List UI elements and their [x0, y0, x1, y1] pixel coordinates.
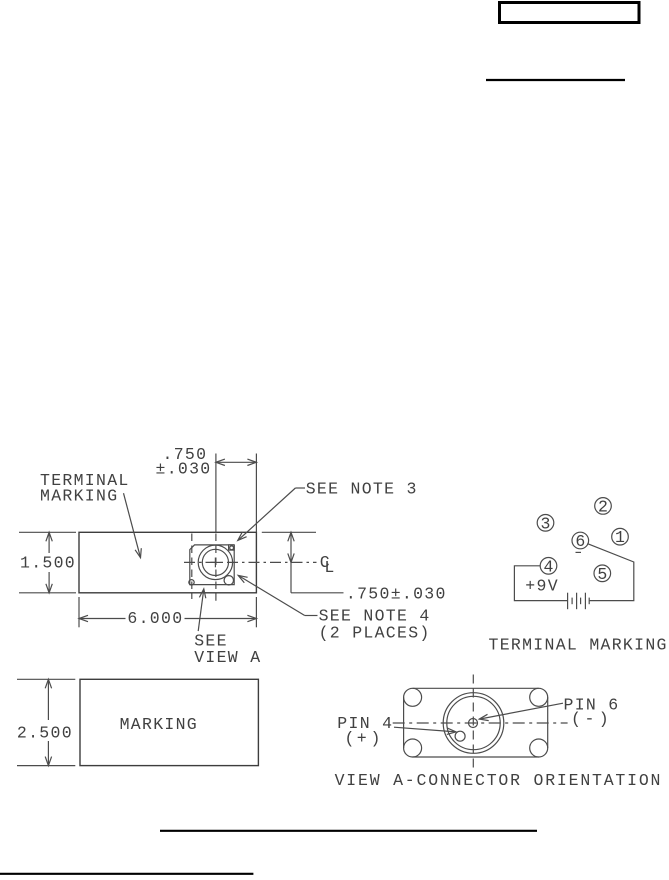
bottom horizontal rule (center) — [160, 830, 537, 832]
caption TERMINAL MARKING — [489, 636, 668, 655]
svg-text:TERMINAL MARKING: TERMINAL MARKING — [489, 636, 668, 655]
terminal 4 — [540, 557, 557, 576]
view A corner snap top-right — [530, 688, 548, 706]
label SEE NOTE 4 (2 PLACES) — [319, 607, 431, 643]
extension line body right edge (.750 top) — [255, 454, 257, 533]
svg-text:VIEW A: VIEW A — [194, 648, 261, 667]
view A vertical centerline — [472, 675, 474, 772]
extension line connector center (.750 top) — [215, 454, 217, 533]
svg-text:6: 6 — [575, 532, 585, 551]
dimension tolerance text ±.030 — [156, 459, 212, 478]
view A connector face outline — [404, 688, 548, 757]
terminal 2 — [595, 497, 612, 516]
connector body (square with chamfer) — [190, 545, 234, 585]
leader arrow to connector (see note 3) — [238, 488, 305, 540]
extension line top (2.500) — [17, 678, 75, 680]
minus mark under terminal 6 — [576, 551, 582, 553]
dimension line 1.500 with arrows — [46, 532, 52, 593]
wire terminal 6 to battery negative — [587, 544, 634, 601]
dimension line 6.000 with arrows — [79, 615, 256, 621]
dimension .750±.030 right: extension line — [262, 531, 316, 533]
view A pin 6 (center) — [469, 719, 478, 728]
dimension text 6.000 — [127, 609, 183, 628]
leader arrow to pin 6 — [479, 703, 563, 720]
svg-text:3: 3 — [541, 514, 551, 533]
view A corner snap bottom-right — [530, 739, 548, 757]
terminal 1 — [612, 528, 629, 547]
leader arrow to connector (see view a) — [198, 589, 206, 631]
svg-text:L: L — [324, 558, 334, 577]
svg-text:MARKING: MARKING — [40, 487, 118, 506]
horizontal rule under title — [486, 79, 625, 81]
svg-text:(-): (-) — [571, 710, 609, 729]
marking face outline — [80, 679, 258, 765]
svg-text:1.500: 1.500 — [20, 553, 76, 572]
svg-text:SEE NOTE 3: SEE NOTE 3 — [306, 480, 418, 499]
+9V label — [525, 577, 559, 596]
label SEE NOTE 3 — [306, 480, 418, 499]
svg-text:(+): (+) — [345, 729, 381, 748]
vertical dashed centerline x=191.8 — [191, 534, 193, 600]
dimension text 2.500 — [17, 724, 73, 743]
view A outer ring — [443, 693, 504, 754]
extension line top-left (1.500) — [19, 531, 76, 533]
view A horizontal centerline — [393, 722, 568, 724]
connector center cross — [210, 558, 220, 568]
svg-text:1: 1 — [615, 528, 625, 547]
label TERMINAL MARKING — [40, 471, 130, 506]
svg-text:2.500: 2.500 — [17, 724, 73, 743]
extension line bottom-left (1.500) — [19, 592, 76, 594]
leader arrow to pin 4 — [394, 727, 456, 734]
label SEE VIEW A — [194, 632, 261, 668]
svg-text:±.030: ±.030 — [156, 459, 212, 478]
wire terminal 4 to battery positive — [514, 566, 567, 601]
terminal 5 — [594, 565, 611, 584]
view A corner snap bottom-left — [404, 739, 422, 757]
svg-text:.750±.030: .750±.030 — [346, 585, 447, 604]
label PIN 6 ( - ) — [564, 696, 620, 729]
svg-text:2: 2 — [598, 497, 608, 516]
caption VIEW A-CONNECTOR ORIENTATION — [335, 771, 663, 790]
svg-text:VIEW A-CONNECTOR ORIENTATION: VIEW A-CONNECTOR ORIENTATION — [335, 771, 663, 790]
terminal 6 — [572, 532, 589, 551]
view A corner snap top-left — [404, 688, 422, 706]
horizontal centerline through connector — [184, 561, 317, 563]
connector snap bottom-left — [189, 580, 194, 585]
connector top-right latch detail — [229, 545, 235, 550]
dimension line 2.500 with arrows — [45, 679, 51, 765]
extension line below-right (6.000) — [255, 597, 257, 627]
label PIN 4 ( + ) — [337, 714, 393, 748]
extension line bottom (2.500) — [17, 765, 75, 767]
leader arrow from TERMINAL MARKING label — [124, 493, 142, 558]
MARKING text — [120, 715, 198, 734]
connector outer ring — [198, 545, 232, 579]
svg-text:4: 4 — [544, 557, 554, 576]
title box (empty) — [500, 3, 640, 23]
view A pin 4 — [455, 731, 465, 741]
dimension text .750 — [163, 445, 208, 464]
terminal 3 — [537, 514, 554, 533]
svg-text:6.000: 6.000 — [127, 609, 183, 628]
connector inner ring — [202, 549, 228, 575]
dimension text 1.500 — [20, 553, 76, 572]
dimension text .750±.030 — [346, 585, 447, 604]
footnote rule bottom-left — [0, 873, 253, 875]
svg-text:5: 5 — [597, 565, 607, 584]
centerline symbol CL — [320, 553, 335, 577]
connector snap bottom-right — [224, 576, 233, 585]
extension line below-left (6.000) — [78, 597, 80, 627]
view A inner ring — [447, 696, 500, 749]
svg-text:+9V: +9V — [525, 577, 559, 596]
dimension line .750 top with arrows — [216, 459, 257, 465]
svg-text:MARKING: MARKING — [120, 715, 198, 734]
battery symbol — [568, 593, 590, 610]
vertical dashed centerline x=215.9 — [215, 534, 217, 601]
battery body outline (side view) — [79, 532, 256, 593]
dimension line vertical with arrows (.750 to centerline) — [288, 532, 344, 593]
leader arrow to connector (see note 4) — [238, 575, 317, 615]
svg-text:(2 PLACES): (2 PLACES) — [319, 623, 431, 642]
